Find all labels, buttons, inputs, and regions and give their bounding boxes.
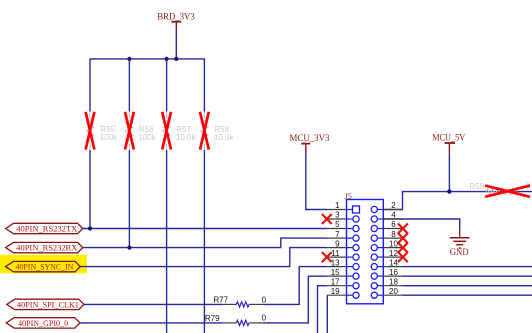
wire R55 to port (89, 150, 91, 229)
pin 13 lead (327, 266, 347, 268)
svg-text:R79: R79 (205, 314, 220, 323)
svg-text:0: 0 (262, 314, 267, 323)
svg-text:5: 5 (335, 220, 340, 229)
DNI cross R55 (86, 112, 95, 150)
wire pin 4 to GND (383, 219, 459, 229)
resistor R59 (ghosted, not installed) (469, 182, 530, 195)
svg-text:7: 7 (335, 230, 340, 239)
pin 1 lead (327, 209, 347, 211)
svg-text:0: 0 (262, 296, 267, 305)
pin 14 lead (383, 266, 402, 268)
pin 5 circle terminal (347, 228, 353, 230)
wire 40PIN_SYNC_IN to pin 9 (80, 248, 327, 267)
pin 6 circle terminal (377, 228, 383, 230)
svg-text:BRD_3V3: BRD_3V3 (157, 12, 195, 22)
pin 17 lead (327, 285, 347, 287)
wire R77 to pin 13 (263, 267, 327, 305)
wire R56 column (128, 59, 130, 248)
svg-text:16: 16 (389, 268, 398, 277)
power symbol MCU_3V3 (290, 133, 330, 153)
pin 12 lead (383, 256, 402, 258)
pin 4 circle terminal (377, 218, 383, 220)
pin 6 lead (383, 228, 402, 230)
svg-text:4: 4 (391, 211, 396, 220)
wire pin 19 down (326, 295, 328, 333)
svg-text:GND: GND (450, 247, 469, 257)
no-connect cross pin 11 (322, 252, 332, 262)
pin 5 lead (327, 228, 347, 230)
pin 20 lead (383, 294, 402, 296)
wire 40PIN_GPIO_0 to R79 (80, 322, 223, 324)
svg-text:15: 15 (331, 268, 340, 277)
no-connect cross pin 8 (398, 233, 408, 243)
DNI cross R57 (162, 112, 171, 150)
svg-text:8: 8 (391, 230, 396, 239)
wire MCU_3V3 to pin 1 (306, 153, 327, 210)
svg-text:19: 19 (331, 287, 340, 296)
pin 8 lead (383, 237, 402, 239)
wire R79 to pin 15 (263, 276, 327, 323)
svg-text:3: 3 (335, 211, 340, 220)
svg-text:1: 1 (335, 201, 340, 210)
no-connect cross pin 10 (398, 243, 408, 253)
wire top bus (90, 59, 204, 112)
svg-text:40PIN_SPI_CLK1: 40PIN_SPI_CLK1 (17, 300, 79, 310)
pin 10 lead (383, 247, 402, 249)
pin 1 square terminal (347, 209, 353, 211)
pin 11 lead (327, 256, 347, 258)
no-connect cross pin 3 (322, 214, 332, 224)
no-connect cross pin 6 (398, 224, 408, 234)
node junction on bus at R57 (165, 57, 169, 61)
svg-text:6: 6 (391, 220, 396, 229)
node junction on bus at R56 (127, 57, 131, 61)
svg-text:MCU_3V3: MCU_3V3 (290, 133, 330, 143)
wire pin 14 right (403, 266, 532, 268)
pin 13 circle terminal (347, 266, 353, 268)
svg-text:40PIN_GPI0_0: 40PIN_GPI0_0 (18, 318, 68, 328)
pin 15 lead (327, 275, 347, 277)
no-connect cross pin 12 (398, 252, 408, 262)
pin 3 lead (327, 218, 347, 220)
svg-text:J5: J5 (345, 192, 352, 201)
svg-text:40PIN_RS232RX: 40PIN_RS232RX (16, 243, 77, 253)
resistor R55 (ghosted, not installed) (87, 112, 119, 151)
power symbol MCU_5V (432, 132, 465, 152)
DNI cross R59 (485, 186, 530, 197)
svg-text:14: 14 (389, 258, 398, 267)
pin 3 circle terminal (347, 218, 353, 220)
pin 14 circle terminal (377, 266, 383, 268)
wire node to R59 (449, 191, 532, 193)
power symbol BRD_3V3 (157, 12, 195, 31)
pin 19 lead (327, 294, 347, 296)
pin 10 circle terminal (377, 247, 383, 249)
connector J5 body (345, 192, 384, 304)
svg-text:10.0k: 10.0k (176, 133, 197, 142)
svg-text:17: 17 (331, 277, 340, 286)
svg-text:20: 20 (389, 287, 398, 296)
pin 16 circle terminal (377, 275, 383, 277)
wire node to pin 2 (383, 192, 449, 210)
pin 7 lead (327, 237, 347, 239)
wire pin 20 right (403, 294, 532, 296)
pin 2 circle terminal (377, 209, 383, 211)
svg-text:11: 11 (331, 249, 340, 258)
wire 40PIN_SPI_CLK1 to R77 (84, 303, 223, 305)
ground GND (450, 229, 470, 257)
resistor R57 (ghosted, not installed) (163, 112, 196, 151)
port 40PIN_SYNC_IN (highlighted) (6, 261, 81, 271)
wire R57 column (166, 59, 168, 333)
svg-text:R59: R59 (469, 182, 484, 191)
svg-text:40PIN_SYNC_IN: 40PIN_SYNC_IN (16, 262, 74, 272)
resistor R79 (205, 314, 267, 326)
port 40PIN_RS232RX (6, 242, 83, 252)
pin 9 circle terminal (347, 247, 353, 249)
wire pin 18 right (403, 285, 532, 287)
wire 40PIN_RS232TX to pin 5 (83, 228, 327, 230)
resistor R77 (213, 296, 266, 308)
svg-text:10: 10 (389, 239, 398, 248)
pin 18 circle terminal (377, 285, 383, 287)
wire pin 17 down (318, 286, 328, 333)
wire 40PIN_RS232RX to pin 7 (83, 238, 327, 248)
svg-text:2: 2 (391, 201, 396, 210)
svg-text:100k: 100k (138, 133, 156, 142)
wire BRD_3V3 stem (175, 30, 177, 59)
pin 9 lead (327, 247, 347, 249)
pin 16 lead (383, 275, 402, 277)
svg-text:9: 9 (335, 239, 340, 248)
svg-text:18: 18 (389, 277, 398, 286)
pin 2 lead (383, 209, 402, 211)
highlight on 40PIN_SYNC_IN (0, 255, 87, 273)
svg-text:R77: R77 (213, 296, 228, 305)
pin 8 circle terminal (377, 237, 383, 239)
node junction R55/RS232TX (88, 226, 92, 230)
pin 4 lead (383, 218, 402, 220)
port 40PIN_GPIO_0 (6, 318, 80, 328)
pin 17 circle terminal (347, 285, 353, 287)
port 40PIN_SPI_CLK1 (7, 299, 84, 309)
pin 11 circle terminal (347, 256, 353, 258)
wire MCU_5V down to node (448, 153, 450, 192)
pin 18 lead (383, 285, 402, 287)
wire R58 lower column (203, 150, 205, 333)
DNI cross R58 (200, 112, 209, 150)
pin 15 circle terminal (347, 275, 353, 277)
wire pin 16 right (403, 275, 532, 277)
svg-text:10.0k: 10.0k (214, 133, 235, 142)
svg-text:40PIN_RS232TX: 40PIN_RS232TX (16, 224, 77, 234)
pin 7 circle terminal (347, 237, 353, 239)
pin 19 circle terminal (347, 294, 353, 296)
DNI cross R56 (125, 112, 134, 150)
node junction MCU_5V (447, 189, 451, 193)
node junction R56/RS232RX (127, 246, 131, 250)
port 40PIN_RS232TX (6, 223, 83, 233)
pin 12 circle terminal (377, 256, 383, 258)
svg-text:12: 12 (389, 249, 398, 258)
resistor R58 (ghosted, not installed) (201, 112, 235, 151)
svg-text:13: 13 (331, 258, 340, 267)
resistor R56 (ghosted, not installed) (126, 112, 157, 151)
svg-text:100k: 100k (100, 133, 118, 142)
pin 20 circle terminal (377, 294, 383, 296)
svg-text:MCU_5V: MCU_5V (432, 132, 465, 142)
node junction on bus at BRD_3V3 (174, 57, 178, 61)
